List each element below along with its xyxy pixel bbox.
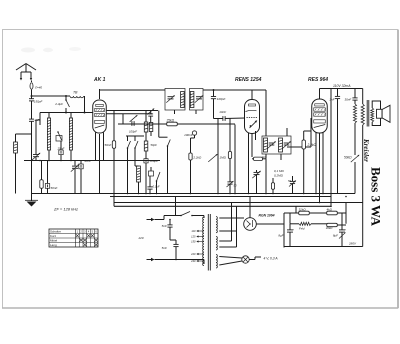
svg-text:0,2MΩ: 0,2MΩ xyxy=(274,174,284,178)
svg-text:Mittel: Mittel xyxy=(50,239,58,243)
svg-text:RES 964: RES 964 xyxy=(308,77,328,83)
svg-text:50pF: 50pF xyxy=(151,143,158,147)
svg-text:100pF: 100pF xyxy=(129,129,137,133)
svg-text:TB: TB xyxy=(73,90,78,94)
svg-text:5nF: 5nF xyxy=(162,246,167,250)
svg-text:4kΩ: 4kΩ xyxy=(327,208,333,212)
svg-text:220: 220 xyxy=(190,252,196,256)
svg-text:220: 220 xyxy=(137,236,143,240)
svg-text:RGN 1064: RGN 1064 xyxy=(259,214,275,218)
svg-text:∅≈40: ∅≈40 xyxy=(35,86,43,90)
svg-text:110: 110 xyxy=(191,229,196,233)
svg-text:150pF: 150pF xyxy=(34,100,43,104)
svg-text:5nF: 5nF xyxy=(162,224,167,228)
svg-text:RENS 1254: RENS 1254 xyxy=(235,77,262,83)
svg-text:100nF: 100nF xyxy=(184,133,193,137)
svg-text:30nF: 30nF xyxy=(345,97,352,101)
svg-text:240: 240 xyxy=(190,259,196,263)
svg-text:8μF: 8μF xyxy=(278,233,283,237)
svg-text:Feld: Feld xyxy=(299,227,305,231)
svg-text:150: 150 xyxy=(191,240,196,244)
svg-text:32kΩ: 32kΩ xyxy=(299,208,307,212)
svg-text:2-3μF: 2-3μF xyxy=(54,102,63,106)
svg-text:0,1 MΩ: 0,1 MΩ xyxy=(274,169,285,173)
svg-text:AK 1: AK 1 xyxy=(93,77,106,83)
svg-text:50nF: 50nF xyxy=(51,186,58,190)
svg-text:Schalter: Schalter xyxy=(50,230,61,234)
svg-text:0,1μF: 0,1μF xyxy=(153,185,160,189)
svg-text:100pF: 100pF xyxy=(217,97,226,101)
svg-text:Lang: Lang xyxy=(50,243,57,247)
svg-text:4 V, 0,3 A: 4 V, 0,3 A xyxy=(264,257,279,261)
svg-text:ZF = 128 kHz: ZF = 128 kHz xyxy=(53,207,78,212)
svg-text:500pF: 500pF xyxy=(150,159,159,163)
svg-text:2,2kΩ: 2,2kΩ xyxy=(307,143,317,147)
svg-text:30kΩ: 30kΩ xyxy=(326,226,334,230)
svg-text:2,2kΩ: 2,2kΩ xyxy=(192,155,202,159)
svg-text:1MΩ: 1MΩ xyxy=(220,156,227,160)
svg-text:2nF: 2nF xyxy=(329,97,335,101)
svg-text:Kreisler: Kreisler xyxy=(362,138,370,162)
svg-text:50nF: 50nF xyxy=(84,159,91,163)
svg-text:Kurz: Kurz xyxy=(50,234,57,238)
svg-text:50nF: 50nF xyxy=(104,143,111,147)
svg-text:1kΩ: 1kΩ xyxy=(262,155,268,159)
svg-text:10nF: 10nF xyxy=(219,110,226,114)
svg-text:110V 32mA: 110V 32mA xyxy=(333,84,351,88)
svg-text:Boss 3 WA: Boss 3 WA xyxy=(369,167,384,227)
svg-text:125: 125 xyxy=(191,235,196,239)
svg-text:280V: 280V xyxy=(348,242,357,246)
svg-text:8μF: 8μF xyxy=(333,233,338,237)
svg-text:50kΩ: 50kΩ xyxy=(344,156,352,160)
